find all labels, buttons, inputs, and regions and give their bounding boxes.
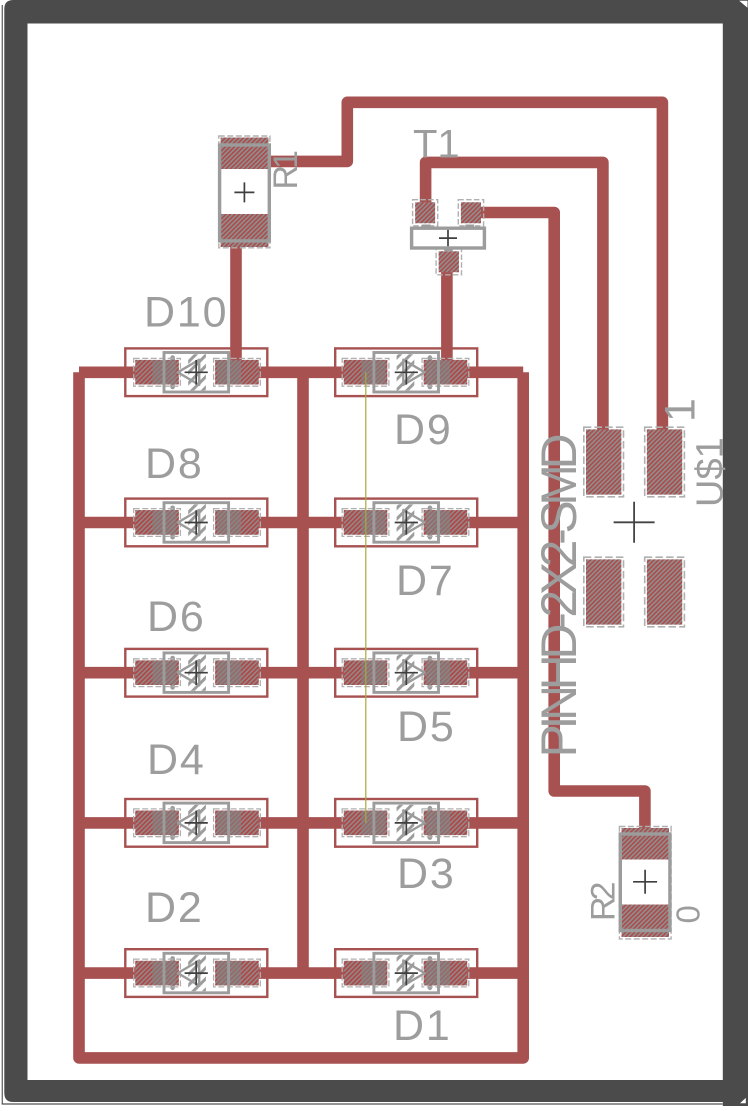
svg-text:D5: D5 [397,703,456,751]
svg-text:0: 0 [670,905,707,923]
svg-text:D4: D4 [147,736,206,784]
svg-text:D8: D8 [145,440,204,488]
svg-text:R2: R2 [585,882,623,921]
svg-text:D7: D7 [396,557,455,605]
svg-text:D10: D10 [144,289,228,337]
svg-text:T1: T1 [413,123,460,167]
svg-text:D2: D2 [145,884,204,932]
svg-text:1: 1 [657,398,705,422]
svg-text:D1: D1 [393,1002,452,1050]
svg-text:R1: R1 [267,151,305,190]
svg-text:U$1: U$1 [690,437,732,507]
svg-text:PINHD-2X2-SMD: PINHD-2X2-SMD [531,435,587,757]
svg-text:D6: D6 [147,593,206,641]
svg-text:D9: D9 [394,406,453,454]
svg-text:D3: D3 [397,850,456,898]
